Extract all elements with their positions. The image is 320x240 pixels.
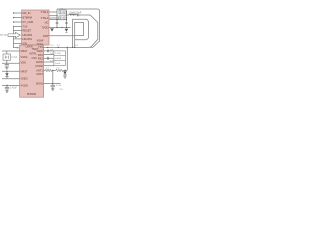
second turn bbox=[79, 15, 98, 47]
svg-text:RX2: RX2 bbox=[38, 56, 44, 60]
svg-text:TVDD: TVDD bbox=[41, 26, 48, 30]
inner turn bbox=[75, 22, 84, 47]
wire RX2 bbox=[44, 57, 54, 59]
junction node bbox=[52, 83, 53, 84]
cap C_vdd bbox=[5, 65, 9, 66]
stub row 3 bbox=[13, 38, 21, 40]
svg-text:VBAT: VBAT bbox=[21, 49, 28, 53]
wire ANT1 bbox=[44, 69, 46, 71]
resistor R1 bbox=[45, 69, 52, 72]
wire RX1 bbox=[44, 54, 54, 56]
wire NRST bbox=[2, 70, 20, 72]
pin stub A2 bbox=[14, 17, 22, 19]
svg-text:PN5180: PN5180 bbox=[27, 92, 37, 96]
ground g4 bbox=[63, 77, 66, 79]
wire row y27.5 bbox=[49, 27, 71, 29]
U2 middle texts bbox=[26, 45, 39, 60]
cap C_s bbox=[51, 85, 55, 86]
svg-text:1uF: 1uF bbox=[50, 49, 54, 51]
svg-text:ANT1: ANT1 bbox=[36, 68, 43, 72]
svg-text:XTAL1: XTAL1 bbox=[41, 10, 49, 14]
battery box bbox=[3, 54, 11, 60]
signal block arrow BT HC bbox=[8, 32, 20, 37]
svg-text:100nF: 100nF bbox=[55, 58, 62, 60]
wire between resistors bbox=[52, 69, 56, 71]
svg-text:1.2uF: 1.2uF bbox=[55, 53, 61, 55]
resistor R2 bbox=[56, 69, 63, 72]
svg-text:HD1451: HD1451 bbox=[23, 37, 33, 41]
svg-text:VDD: VDD bbox=[21, 61, 27, 65]
svg-text:OSC: OSC bbox=[32, 56, 38, 60]
shunt cap on x66.4 bbox=[65, 22, 68, 23]
wire AVDD bbox=[44, 61, 54, 63]
svg-text:AVDD: AVDD bbox=[36, 60, 43, 64]
third turn bbox=[73, 19, 89, 47]
svg-text:DY_CHB: DY_CHB bbox=[23, 20, 34, 24]
junction node bbox=[52, 70, 53, 71]
svg-text:BT HC: BT HC bbox=[0, 34, 7, 37]
U2 right pin names bbox=[36, 45, 44, 85]
pin stub A1 bbox=[14, 12, 22, 14]
svg-text:4.7uF: 4.7uF bbox=[11, 57, 17, 59]
svg-text:SIGIN: SIGIN bbox=[36, 81, 43, 85]
ground g5 bbox=[51, 89, 54, 91]
wire after R2 bbox=[63, 69, 67, 71]
svg-text:RXP: RXP bbox=[43, 34, 49, 38]
inductor L1 bbox=[69, 14, 77, 15]
stub row 1 bbox=[13, 26, 21, 28]
ground triangle right bbox=[65, 29, 69, 32]
svg-text:RX1: RX1 bbox=[38, 53, 44, 57]
wire TX2 bbox=[44, 46, 89, 48]
svg-text:1uF: 1uF bbox=[50, 53, 54, 55]
svg-text:XTAL2: XTAL2 bbox=[41, 16, 49, 20]
junction dots on x66.4 bus bbox=[66, 19, 67, 20]
U2 left pin names bbox=[21, 49, 29, 88]
svg-text:VDHF: VDHF bbox=[37, 38, 44, 42]
svg-text:DVDD: DVDD bbox=[36, 64, 43, 68]
diode D1 bbox=[5, 73, 8, 76]
junction dots cluster bbox=[56, 19, 57, 20]
left vertical bus bbox=[13, 26, 18, 48]
link to SIGIN wire bbox=[52, 70, 54, 83]
background bbox=[0, 0, 100, 100]
pin stub A3 bbox=[14, 21, 22, 23]
wire VDD bbox=[2, 62, 20, 64]
table block bbox=[54, 51, 66, 66]
U1 right pin names bbox=[41, 10, 49, 38]
ground g6 bbox=[5, 91, 8, 93]
stub row 4 bbox=[13, 43, 21, 45]
U2 bottom name bbox=[27, 92, 37, 96]
diode D2 bbox=[64, 70, 66, 71]
svg-text:VMID: VMID bbox=[36, 49, 43, 53]
right bus down bbox=[66, 47, 68, 70]
svg-text:HD1450: HD1450 bbox=[23, 33, 33, 37]
ground gnd1 at IC edge bbox=[50, 28, 54, 30]
svg-text:1uF: 1uF bbox=[50, 60, 54, 62]
cap C_x bbox=[5, 87, 9, 88]
svg-text:RESET: RESET bbox=[23, 29, 32, 33]
IC U1 (top transceiver) bbox=[22, 10, 49, 45]
wire VBAT bbox=[2, 50, 20, 52]
wire row y19.6 bbox=[49, 19, 66, 21]
svg-text:10nF: 10nF bbox=[55, 63, 61, 65]
svg-text:GND2: GND2 bbox=[21, 77, 29, 81]
wire DVDD bbox=[44, 65, 54, 67]
right bus of crystals bbox=[65, 12, 67, 28]
junction node bbox=[64, 70, 65, 71]
series cap bbox=[77, 14, 79, 17]
stub XTAL2 bbox=[49, 17, 59, 19]
svg-text:VSSA: VSSA bbox=[21, 55, 28, 59]
stub CLK bbox=[49, 15, 57, 17]
svg-text:BTB4/M: BTB4/M bbox=[23, 15, 32, 19]
svg-text:4.7uF: 4.7uF bbox=[56, 85, 62, 87]
wire GND2 bbox=[2, 78, 20, 80]
wire SIGIN bbox=[44, 83, 61, 85]
ground g7 bbox=[5, 67, 8, 69]
svg-text:ANT2: ANT2 bbox=[36, 72, 43, 76]
svg-text:NRST: NRST bbox=[21, 69, 28, 73]
junction dots on TX2 wire bbox=[47, 47, 48, 48]
wire RX bbox=[49, 35, 75, 37]
crystal Y2 bbox=[59, 16, 66, 20]
feed wire stub bbox=[66, 14, 69, 16]
svg-text:MA_IN: MA_IN bbox=[23, 11, 31, 15]
left cluster vertical bbox=[56, 9, 58, 28]
svg-text:TVS: TVS bbox=[59, 89, 64, 91]
stub row 2 bbox=[13, 30, 21, 32]
svg-text:1.41uF: 1.41uF bbox=[10, 88, 18, 90]
U1 left pin names bbox=[23, 11, 34, 46]
svg-text:NC: NC bbox=[45, 20, 49, 24]
crystal Y1 bbox=[59, 10, 66, 14]
shunt cap on x57 bbox=[56, 22, 59, 23]
svg-text:TX0: TX0 bbox=[23, 24, 28, 28]
IC U2 (bottom controller) bbox=[20, 45, 44, 97]
stub XTAL1 bbox=[49, 11, 57, 13]
wire XVDD bbox=[2, 85, 20, 87]
svg-text:TX2: TX2 bbox=[38, 45, 43, 49]
svg-text:XVDD: XVDD bbox=[21, 84, 28, 88]
outermost turn (top line y9 to right edge) bbox=[57, 9, 100, 48]
wire VMID bbox=[44, 50, 54, 52]
